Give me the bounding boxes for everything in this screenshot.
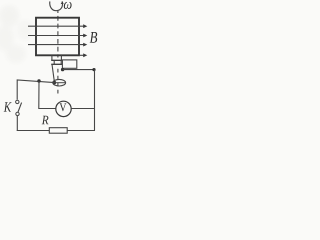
field line 1 — [28, 25, 84, 27]
shaft pulley (ellipse) — [53, 79, 66, 86]
arrowhead 1 — [83, 24, 87, 28]
label B — [90, 32, 97, 43]
field line 2 — [28, 35, 84, 37]
coil lead right — [60, 55, 62, 60]
junction dot voltmeter branch — [37, 79, 40, 82]
rotation arrow head — [61, 1, 64, 4]
wire switch to bottom rail — [16, 116, 18, 131]
pulley mid line — [53, 82, 66, 84]
voltmeter letter — [59, 103, 66, 111]
field line 4 (along coil bottom edge) — [79, 54, 84, 56]
right rail wire — [94, 70, 96, 131]
arrowhead 2 — [83, 34, 87, 38]
coil lead left — [51, 55, 53, 60]
coil frame — [36, 18, 79, 56]
switch bottom terminal — [16, 112, 19, 115]
switch top terminal — [16, 100, 19, 103]
ring tick left — [53, 60, 55, 64]
voltmeter V — [56, 101, 71, 116]
field line 3 — [28, 44, 84, 46]
junction dot brush output — [61, 68, 64, 71]
rotation arrow (angular velocity) — [50, 1, 63, 10]
wire left rail top — [17, 80, 54, 100]
label R — [42, 116, 49, 124]
brush block — [62, 60, 76, 68]
rotation axis dashed lower — [57, 67, 59, 95]
left brush wire down — [52, 64, 54, 81]
wire brush to right rail — [63, 69, 95, 71]
bottom rail right segment — [67, 130, 95, 132]
slip ring lower bar — [51, 63, 62, 65]
arrowhead 3 — [83, 43, 87, 47]
bottom rail left segment — [17, 130, 50, 132]
junction dot right rail top — [92, 68, 95, 71]
slip ring upper bar — [51, 59, 62, 61]
wire voltmeter to right rail — [71, 108, 94, 110]
ring tick right — [60, 60, 62, 64]
label K — [4, 102, 12, 111]
wire voltmeter branch — [39, 81, 56, 109]
label omega — [64, 2, 72, 9]
rotation axis dashed upper — [57, 11, 59, 58]
arrowhead 4 — [83, 53, 87, 57]
resistor R box — [49, 128, 67, 134]
switch lever — [18, 103, 22, 112]
junction dot at pulley — [53, 81, 57, 85]
